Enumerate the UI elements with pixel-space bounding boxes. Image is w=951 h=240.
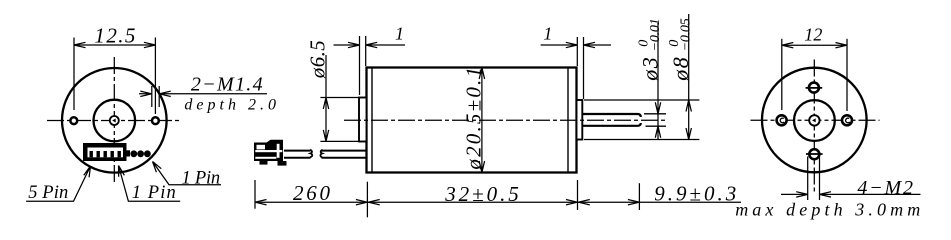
text phi8 0/-0.05 rotated bbox=[667, 18, 694, 82]
M2 hole left bbox=[777, 115, 787, 125]
motor body rectangle bbox=[367, 68, 577, 173]
dim phi3: line and arrows bbox=[655, 23, 660, 140]
5-pin connector block bbox=[83, 143, 127, 161]
connector teeth bbox=[90, 151, 93, 157]
svg-text:−0.05: −0.05 bbox=[679, 18, 694, 51]
M1.4 hole edge tick left bbox=[151, 86, 153, 107]
arrow right of 12.5 bbox=[144, 42, 156, 47]
centerline horizontal left view bbox=[47, 120, 181, 122]
center mark triangle right view bbox=[812, 118, 816, 122]
M2 hole top bbox=[809, 83, 819, 93]
dimension 12.5 extension line left bbox=[73, 38, 75, 111]
shaft circle (left view) bbox=[110, 116, 119, 125]
connector foot right bbox=[278, 161, 287, 166]
right end cap line bbox=[567, 68, 569, 173]
text phi3 0/-0.01 rotated bbox=[637, 18, 664, 82]
svg-text:ø6.5: ø6.5 bbox=[306, 40, 330, 79]
dim 1 right: extension lines bbox=[576, 37, 578, 66]
svg-text:ø8: ø8 bbox=[668, 56, 693, 82]
dim phi20.5 line with arrows bbox=[479, 68, 484, 173]
svg-text:1: 1 bbox=[395, 24, 404, 44]
leader 5 Pin bbox=[26, 166, 90, 201]
leader 1 Pin right bbox=[153, 162, 222, 185]
svg-text:1 Pin: 1 Pin bbox=[132, 183, 176, 203]
M1.4 arrow from left bbox=[139, 91, 152, 96]
wire break squiggle A bbox=[310, 150, 312, 158]
rear boss rectangle bbox=[359, 98, 367, 142]
wire break squiggle B bbox=[320, 150, 322, 158]
svg-text:1 Pin: 1 Pin bbox=[182, 168, 221, 188]
connector pin blobs bbox=[130, 150, 137, 157]
svg-text:ø3: ø3 bbox=[638, 56, 663, 82]
svg-text:4−M2: 4−M2 bbox=[857, 177, 913, 199]
center mark triangle bbox=[112, 119, 116, 123]
front bearing boss rectangle bbox=[577, 100, 583, 140]
mounting hole right M1.4 bbox=[152, 117, 159, 124]
dim 1 left: extension lines bbox=[359, 36, 361, 95]
left end cap line bbox=[371, 68, 373, 173]
dim phi8: extension lines bbox=[584, 99, 699, 101]
dim 1 right: lines and arrows bbox=[541, 42, 578, 47]
svg-text:32±0.5: 32±0.5 bbox=[444, 182, 519, 206]
inner boss circle (left view) bbox=[94, 100, 136, 142]
dim phi6.5: extension lines bbox=[320, 97, 358, 99]
connector stub bbox=[127, 150, 131, 156]
centerline vertical left view bbox=[113, 57, 115, 183]
text phi6.5 rotated bbox=[306, 40, 330, 79]
svg-text:12.5: 12.5 bbox=[94, 24, 135, 48]
dimension 12.5 line bbox=[74, 44, 155, 46]
shaft top line bbox=[582, 114, 641, 117]
arrow left of 12.5 bbox=[74, 42, 86, 47]
wire segment B bbox=[322, 150, 367, 152]
cable connector plug bbox=[254, 140, 283, 161]
text phi20.5 rotated bbox=[462, 67, 486, 171]
inner boss circle (right view) bbox=[794, 100, 835, 141]
dim phi6.5 line with arrows bbox=[323, 55, 328, 141]
bottom dimension line bbox=[255, 201, 741, 203]
4-M2 callout ticks bbox=[807, 157, 809, 201]
svg-text:ø20.5±0.1: ø20.5±0.1 bbox=[462, 67, 486, 171]
dim 12 line with arrows bbox=[782, 43, 847, 48]
centerline horizontal right view bbox=[751, 119, 880, 121]
leader 1 Pin center bbox=[119, 166, 181, 202]
dim 12: extension lines bbox=[781, 39, 783, 110]
mounting hole left M1.4 bbox=[70, 117, 77, 124]
wire segment A bbox=[284, 150, 311, 152]
svg-text:12: 12 bbox=[804, 24, 822, 44]
dimension 12.5 extension line right bbox=[154, 38, 156, 115]
arrows bottom chain bbox=[255, 200, 267, 205]
motor outer circle (left view) bbox=[62, 68, 167, 173]
shaft bottom line bbox=[582, 123, 641, 126]
svg-text:1: 1 bbox=[543, 24, 552, 44]
svg-text:5 Pin: 5 Pin bbox=[28, 183, 68, 203]
M2 hole right bbox=[842, 115, 852, 125]
svg-text:−0.01: −0.01 bbox=[648, 18, 663, 51]
centerline vertical right view bbox=[813, 60, 815, 192]
motor outer circle (right view) bbox=[762, 68, 867, 173]
centerline middle view bbox=[344, 119, 668, 121]
dim phi8 line with arrows bbox=[686, 14, 691, 140]
connector foot left bbox=[260, 161, 268, 165]
dim 1 left: lines and arrows bbox=[334, 42, 360, 47]
svg-text:2−M1.4: 2−M1.4 bbox=[191, 74, 263, 96]
svg-text:260: 260 bbox=[293, 181, 331, 205]
svg-text:depth 2.0: depth 2.0 bbox=[184, 97, 276, 114]
shaft edge extension thin lines bbox=[644, 113, 666, 115]
M2 hole bottom bbox=[809, 149, 819, 159]
M1.4 leader line with arrow bbox=[159, 91, 267, 96]
shaft circle (right view) bbox=[809, 115, 819, 125]
M1.4 hole edge tick right bbox=[158, 86, 160, 107]
bottom dimension chain: extension ticks bbox=[254, 180, 256, 209]
4-M2 arrows and leader bbox=[781, 192, 808, 197]
